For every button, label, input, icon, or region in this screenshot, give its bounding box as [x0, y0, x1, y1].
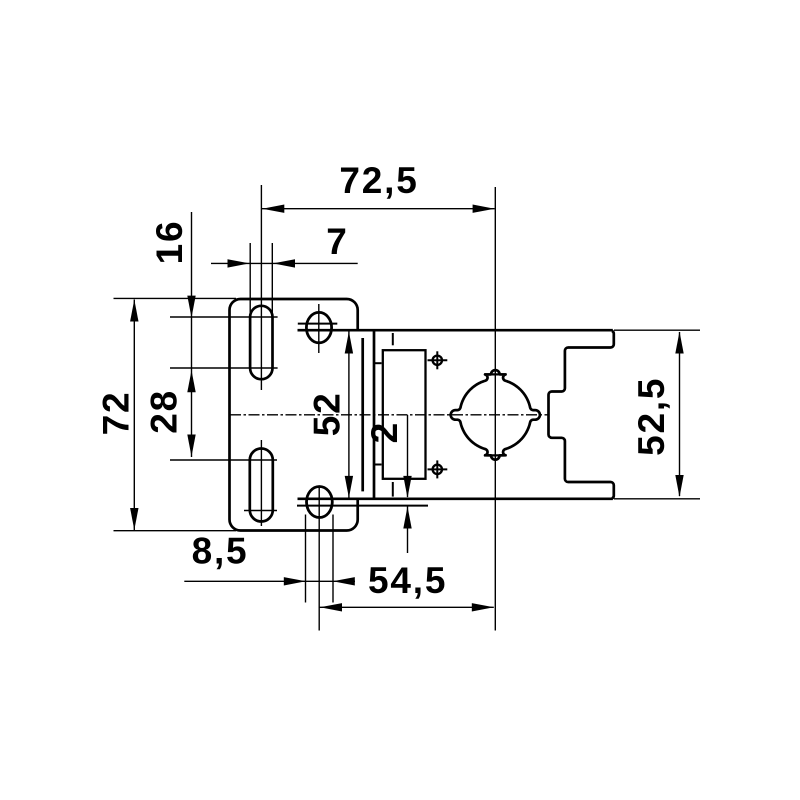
- svg-text:7: 7: [326, 221, 348, 262]
- svg-text:2: 2: [364, 421, 405, 443]
- svg-text:72,5: 72,5: [339, 160, 418, 201]
- svg-text:52: 52: [307, 391, 348, 436]
- svg-text:16: 16: [149, 220, 190, 265]
- svg-text:72: 72: [96, 391, 137, 436]
- svg-text:54,5: 54,5: [368, 560, 447, 601]
- svg-text:8,5: 8,5: [192, 531, 249, 572]
- svg-text:28: 28: [144, 389, 185, 434]
- svg-text:52,5: 52,5: [631, 377, 672, 456]
